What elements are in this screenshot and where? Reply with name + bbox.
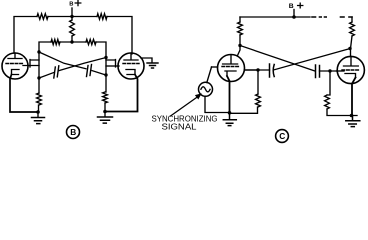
resistor R7 (right cathode/grid leak) xyxy=(103,92,108,103)
capacitor C4 (right coupling) xyxy=(316,65,320,78)
resistor R4 (left grid resistor) xyxy=(51,39,60,44)
wire V3 cathode down xyxy=(227,76,230,113)
V3 grid lead left xyxy=(212,66,218,68)
svg-text:B: B xyxy=(70,127,76,137)
vacuum tube V2 envelope xyxy=(118,53,144,79)
ground (C left) xyxy=(223,113,236,126)
wire C right grid resistor stub xyxy=(327,71,357,116)
B+ lead stub (C) xyxy=(293,10,295,18)
resistor R8 (C left plate load) xyxy=(238,22,243,35)
node C left grid xyxy=(256,68,259,71)
B+ label (circuit B) xyxy=(69,2,73,8)
V3 grid (dashed) xyxy=(222,66,240,68)
svg-text:C: C xyxy=(279,131,285,141)
wire center resistor stubs xyxy=(71,17,73,43)
wire left grid node (C) xyxy=(245,69,270,71)
V2 cathode xyxy=(126,70,135,75)
V4 grid (dashed) xyxy=(342,69,359,71)
node B+ junction xyxy=(70,15,73,18)
label C letter xyxy=(279,131,285,141)
resistor R10 (C left grid resistor) xyxy=(256,94,261,107)
resistor R5 (right grid resistor) xyxy=(86,39,96,44)
wire V4 cathode down xyxy=(352,78,356,116)
wire V2 cathode down to ground bus xyxy=(105,75,138,112)
V2 side lead to ground xyxy=(141,58,152,62)
V4 cathode xyxy=(345,74,356,78)
wire sync source top xyxy=(207,67,212,83)
vacuum tube V4 envelope xyxy=(337,56,364,83)
wire right plate drop (C) xyxy=(351,17,353,56)
wire top-left corner to left tube plate xyxy=(14,17,37,54)
wire top-right corner to right tube plate xyxy=(107,17,132,55)
wire left plate drop (C) xyxy=(238,17,241,56)
resistor R6 (left cathode/grid leak) xyxy=(37,93,42,105)
V4 grid lead xyxy=(337,70,345,72)
node C right grid xyxy=(328,69,331,72)
V3 grid lead right xyxy=(245,69,259,71)
V3 plate xyxy=(223,55,238,64)
wire left grid vertical xyxy=(38,52,40,93)
V1 grid lead tick detail xyxy=(30,60,39,68)
node C right ground junction xyxy=(350,114,354,118)
V1 cathode xyxy=(12,70,20,75)
resistor R1 (left plate load) xyxy=(37,14,48,20)
node right grid lower xyxy=(104,73,107,76)
node C left plate tap xyxy=(238,44,241,47)
ground (V2 side) xyxy=(147,63,158,68)
arrowhead xyxy=(195,93,202,99)
node left grid top xyxy=(37,50,40,53)
capacitor C1 (on diagonal B) xyxy=(54,66,59,78)
svg-text:B: B xyxy=(289,3,294,10)
wire V1 cathode to ground bus xyxy=(10,75,38,113)
node row2 center junction xyxy=(70,40,73,43)
wire right grid vertical xyxy=(105,58,107,93)
wire resistor R6 lower stub xyxy=(37,105,40,117)
wire C left grid resistor stub xyxy=(230,70,259,113)
node right grid top xyxy=(104,56,107,59)
coupling wire V1grid to V2 (diagonal A) xyxy=(39,52,106,75)
node B+ junction (C) xyxy=(292,15,296,19)
wire row2 left corner down xyxy=(39,42,51,52)
V2 grid (dashed) xyxy=(123,63,139,65)
top rail wire (C solid part) xyxy=(240,16,310,18)
V2 plate xyxy=(124,53,138,60)
svg-text:B: B xyxy=(69,2,73,8)
V2 grid lead xyxy=(106,65,119,67)
resistor R11 (C right grid resistor) xyxy=(325,95,330,109)
top rail dashed continuation xyxy=(312,16,352,18)
coupling wire C right-plate to left-grid (diagonal) xyxy=(274,49,351,71)
node C left ground junction xyxy=(228,111,232,115)
ground (B left) xyxy=(32,118,45,124)
B+ label (circuit C) xyxy=(289,3,294,10)
text SIGNAL xyxy=(162,123,198,132)
coupling wire C left-plate to right-grid (diagonal) xyxy=(240,46,315,72)
sync generator G1 xyxy=(199,82,213,96)
resistor R2 (right plate load) xyxy=(97,14,107,20)
resistor R9 (C right plate load) xyxy=(350,22,355,36)
node left grid lower xyxy=(37,76,40,79)
wire row2 left xyxy=(60,41,86,43)
V2 grid lead tick detail xyxy=(106,60,116,68)
label (B) circle xyxy=(67,126,80,139)
label (C) circle xyxy=(276,130,289,143)
resistor R3 (common grid return, vertical) xyxy=(70,20,75,36)
top rail wire right xyxy=(72,16,97,18)
coupling wire V2grid to V1 (diagonal B) xyxy=(39,58,106,79)
label B letter xyxy=(70,127,76,137)
capacitor C3 (left coupling) xyxy=(270,64,275,77)
B+ lead stub xyxy=(71,8,73,17)
node C right plate tap xyxy=(348,47,351,50)
node ground junction B left xyxy=(36,110,40,114)
ground (C right) xyxy=(346,116,360,127)
text SYNCHRONIZING xyxy=(152,115,218,124)
wire row2 right corner down xyxy=(96,42,106,57)
vacuum tube V1 envelope xyxy=(2,53,28,79)
V1 plate xyxy=(8,53,22,59)
arrow to sync generator xyxy=(171,97,199,117)
wire sync source bottom xyxy=(205,96,230,112)
capacitor C2 (on diagonal A) xyxy=(87,65,92,77)
V1 grid lead xyxy=(23,65,39,67)
sine symbol inside G1 xyxy=(201,87,210,92)
ground (B right) xyxy=(98,117,113,123)
V4 plate xyxy=(344,56,359,66)
node ground junction B right xyxy=(103,110,107,114)
V3 cathode xyxy=(225,71,236,76)
V1 grid (dashed) xyxy=(6,63,24,65)
vacuum tube V3 envelope xyxy=(218,55,245,82)
svg-text:SIGNAL: SIGNAL xyxy=(162,123,198,132)
wire resistor R7 lower stub xyxy=(104,103,106,117)
top rail wire left xyxy=(48,16,72,18)
wire right grid node (C) xyxy=(320,70,337,72)
